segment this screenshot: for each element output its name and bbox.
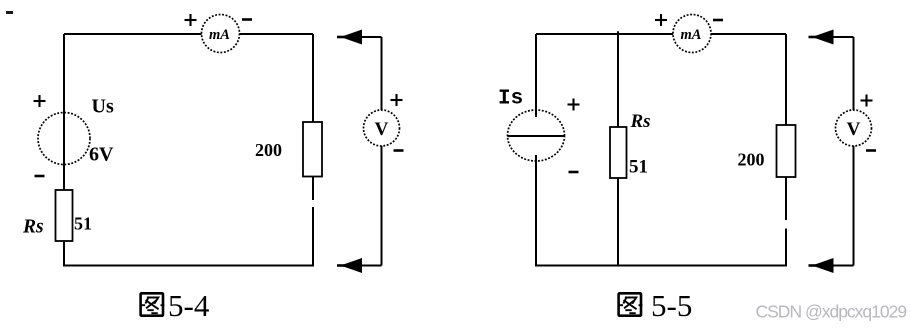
- wire: right loop top horizontal: [536, 33, 786, 35]
- svg-text:Us: Us: [92, 96, 114, 118]
- wire: left loop right vertical upper: [312, 34, 314, 200]
- svg-text:mA: mA: [209, 27, 230, 43]
- voltmeter V (left): [364, 110, 400, 146]
- svg-text:200: 200: [738, 150, 765, 170]
- wire: left loop right vertical lower (after gap): [312, 207, 314, 266]
- minus sign of voltmeter (left): [394, 149, 404, 152]
- resistor 200 (right): [777, 125, 796, 177]
- wire: right loop left vertical (current source branch): [535, 34, 537, 266]
- minus sign of ammeter (right): [713, 19, 723, 22]
- wire: voltmeter top horizontal with arrow (right): [828, 36, 854, 38]
- voltage source Us circle: [38, 113, 90, 165]
- wire: middle branch vertical (Rs branch): [617, 31, 619, 265]
- svg-text:mA: mA: [681, 27, 702, 43]
- svg-text:5-5: 5-5: [651, 288, 692, 323]
- wire nub into Is circle top: [535, 109, 537, 117]
- resistor Rs (left): [56, 190, 73, 241]
- wire: right loop right vertical lower (after gap): [785, 229, 787, 267]
- arrowhead top (right): [812, 30, 834, 45]
- plus sign of ammeter (left): [185, 14, 197, 26]
- wire: voltmeter bottom horizontal with arrow (left): [356, 265, 382, 267]
- svg-text:Rs: Rs: [630, 111, 651, 132]
- current source Is circle: [508, 110, 565, 161]
- wire: voltmeter bottom horizontal with arrow (right): [828, 265, 854, 267]
- svg-text:51: 51: [74, 214, 92, 234]
- wire: left loop left vertical: [63, 34, 65, 266]
- plus sign of Us: [34, 95, 46, 107]
- wire: voltmeter branch vertical (left): [381, 37, 383, 266]
- wire: through voltage source Us: [63, 34, 65, 191]
- plus sign of voltmeter (right): [861, 95, 873, 107]
- minus sign of ammeter (left): [242, 18, 252, 21]
- svg-text:6V: 6V: [89, 144, 114, 166]
- svg-text:V: V: [375, 119, 389, 140]
- ammeter mA (right): [673, 15, 711, 53]
- resistor 200 (left): [303, 122, 322, 177]
- caption 图 glyph (right): [619, 293, 642, 315]
- resistor Rs (right): [610, 127, 627, 178]
- plus sign of Is: [568, 99, 580, 111]
- wire nub into Is circle bottom: [535, 155, 537, 162]
- svg-text:200: 200: [255, 140, 282, 160]
- minus sign of Is: [569, 171, 579, 174]
- minus sign of voltmeter (right): [866, 149, 876, 152]
- chord of current source Is: [508, 135, 565, 137]
- svg-text:Is: Is: [498, 88, 523, 111]
- caption 图 glyph (left): [141, 293, 164, 315]
- wire: right loop right vertical upper: [785, 34, 787, 220]
- svg-text:CSDN @xdpcxq1029: CSDN @xdpcxq1029: [756, 302, 907, 322]
- arrowhead bottom (right): [812, 258, 834, 273]
- ammeter mA (left): [202, 15, 240, 53]
- arrowhead bottom (left): [341, 258, 363, 273]
- wire: voltmeter top horizontal with arrow (left): [356, 36, 382, 38]
- wire: right loop bottom horizontal: [535, 265, 787, 267]
- minus sign of Us: [35, 175, 45, 178]
- wire: voltmeter branch vertical (right): [853, 37, 855, 266]
- wire: left loop bottom horizontal: [63, 265, 314, 267]
- plus sign of voltmeter (left): [391, 94, 403, 106]
- svg-text:V: V: [847, 119, 861, 140]
- stray dash top-left: [6, 11, 13, 14]
- voltmeter V (right): [836, 110, 872, 146]
- wire: left loop top horizontal: [64, 33, 313, 35]
- svg-text:Rs: Rs: [22, 217, 44, 238]
- plus sign of ammeter (right): [655, 14, 667, 26]
- svg-text:51: 51: [629, 157, 648, 178]
- arrowhead top (left): [341, 30, 363, 45]
- svg-text:5-4: 5-4: [168, 288, 210, 323]
